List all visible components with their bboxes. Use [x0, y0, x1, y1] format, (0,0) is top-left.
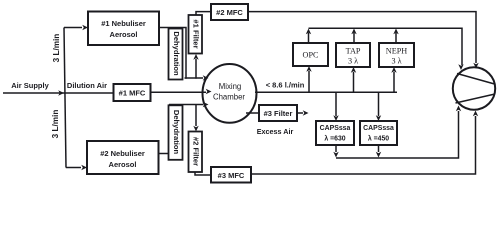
wire: #2 MFC to pump (top line) — [248, 12, 479, 69]
svg-text:< 8.6 l./min: < 8.6 l./min — [266, 81, 305, 90]
wire: NEPH top riser — [393, 29, 398, 44]
pump vane bottom — [456, 94, 496, 103]
box: nebuliser 1 — [88, 12, 159, 46]
svg-text:Mixing: Mixing — [219, 82, 242, 91]
svg-text:Chamber: Chamber — [213, 92, 245, 101]
svg-text:OPC: OPC — [303, 51, 319, 60]
wire: riser NEPH from manifold — [391, 67, 396, 92]
svg-text:NEPH: NEPH — [386, 47, 407, 56]
svg-text:λ =630: λ =630 — [324, 134, 345, 142]
pump vane top — [457, 74, 495, 85]
wire: CAPS collection line to pump bottom-left — [336, 106, 461, 159]
wire: collection manifold to pump — [309, 28, 463, 65]
svg-text:3 L/min: 3 L/min — [52, 34, 61, 63]
svg-text:Dehydration: Dehydration — [172, 110, 181, 155]
wire: filter1 top to #2 MFC — [196, 12, 211, 15]
wire: branch up to filter 1 — [193, 54, 198, 79]
svg-text:3 L/min: 3 L/min — [51, 110, 60, 139]
svg-text:Air Supply: Air Supply — [11, 81, 49, 90]
box: dehydration 2 — [169, 105, 183, 160]
box: filter 2 — [189, 132, 203, 173]
svg-text:#2 MFC: #2 MFC — [216, 8, 243, 17]
wire: TAP top riser — [351, 29, 356, 44]
svg-text:3 λ: 3 λ — [391, 57, 401, 66]
svg-text:TAP: TAP — [346, 47, 361, 56]
svg-text:Aerosol: Aerosol — [109, 160, 137, 169]
svg-text:#3 Filter: #3 Filter — [264, 109, 293, 118]
wire: trunk to #1 nebuliser — [64, 25, 88, 30]
box: NEPH — [379, 43, 414, 67]
wire: #1 MFC to mixing chamber — [151, 89, 212, 94]
wire: CAPS dropper 1 — [333, 92, 338, 121]
box: filter 1 — [189, 15, 203, 54]
svg-text:#1 Filter: #1 Filter — [192, 19, 201, 48]
wire: filter2 to #3 MFC — [195, 172, 211, 176]
wire: line into mixing chamber (bottom) — [169, 102, 209, 107]
svg-text:Dehydration: Dehydration — [172, 31, 181, 76]
svg-text:#2 Filter: #2 Filter — [192, 137, 201, 166]
box: CAPSssa 630 — [316, 121, 354, 145]
svg-text:Aerosol: Aerosol — [110, 30, 138, 39]
svg-text:λ =450: λ =450 — [368, 134, 389, 142]
svg-text:Dilution Air: Dilution Air — [67, 81, 107, 90]
wire: vertical trunk to nebulisers — [64, 28, 66, 168]
box: #2 MFC — [211, 4, 248, 20]
box: #3 filter — [259, 105, 297, 121]
pump: circle — [453, 67, 495, 109]
box: TAP — [336, 43, 370, 67]
wire: riser OPC from manifold — [306, 66, 311, 92]
wire: arrow into pump top-left — [458, 64, 463, 70]
box: #1 MFC — [114, 84, 151, 101]
svg-text:CAPSssa: CAPSssa — [320, 125, 351, 132]
box: nebuliser 2 — [87, 141, 159, 174]
svg-text:CAPSssa: CAPSssa — [363, 125, 394, 132]
wire: OPC top riser to collection manifold — [306, 29, 311, 44]
box: #3 MFC — [211, 167, 251, 183]
wire: chamber sample out manifold — [255, 91, 397, 93]
svg-text:3 λ: 3 λ — [348, 57, 358, 66]
svg-text:Excess Air: Excess Air — [257, 127, 294, 136]
svg-text:#3 MFC: #3 MFC — [218, 171, 245, 180]
wire: CAPS dropper 2 — [376, 92, 381, 121]
svg-text:#1 Nebuliser: #1 Nebuliser — [101, 19, 146, 28]
wire: riser TAP from manifold — [351, 67, 356, 92]
svg-text:#1 MFC: #1 MFC — [119, 89, 146, 98]
wire: branch down to filter 2 — [193, 105, 198, 132]
wire: trunk to #2 nebuliser — [66, 165, 87, 170]
wire: CAPS2 out down arrow — [376, 145, 381, 158]
box: OPC — [293, 43, 328, 66]
svg-text:#2 Nebuliser: #2 Nebuliser — [100, 149, 145, 158]
wire: chamber excess out — [246, 112, 259, 114]
wire: excess air out arrow — [297, 110, 309, 115]
wire: line into mixing chamber (top) — [185, 75, 209, 80]
wire: CAPS1 out down arrow — [333, 145, 338, 158]
wire: nebuliser1 out, over and down right side of dehydration — [159, 28, 186, 79]
box: CAPSssa 450 — [360, 121, 397, 145]
wire: air supply horizontal — [3, 90, 115, 95]
box: dehydration 1 — [169, 29, 183, 80]
wire: nebuliser2 out stub into dehydration2 — [159, 153, 170, 155]
wire: #3 MFC to pump (bottom line) — [251, 111, 478, 175]
node: mixing chamber — [203, 64, 257, 123]
